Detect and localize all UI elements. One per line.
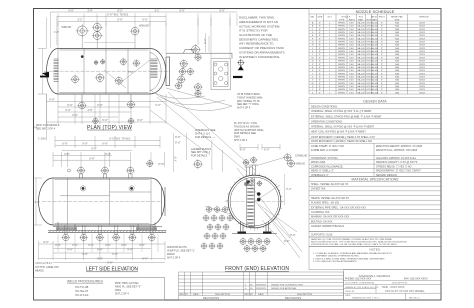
svg-text:TYP: TYP xyxy=(128,71,133,74)
cluster bolt K12 xyxy=(212,233,217,238)
svg-text:RFWN: RFWN xyxy=(338,38,345,40)
long diagonal leaders to front view xyxy=(150,92,255,172)
svg-text:X’-X”: X’-X” xyxy=(175,136,181,139)
svg-text:4’-X”: 4’-X” xyxy=(35,201,40,204)
svg-text:XXXX: XXXX xyxy=(419,57,425,59)
svg-text:MANWAY: SA-XXX: MANWAY: SA-XXX GR X/XX-XXX xyxy=(311,216,349,219)
svg-text:CORROSION ALLOWANCE:: CORROSION ALLOWANCE: xyxy=(311,165,344,168)
nozzle F4 xyxy=(288,160,295,167)
svg-text:X’-X”: X’-X” xyxy=(67,104,73,107)
cluster bolt K9 xyxy=(215,224,220,229)
svg-text:150#: 150# xyxy=(349,64,355,66)
svg-text:N/A: N/A xyxy=(395,88,399,91)
svg-text:MATERIAL SPECIFICATIONS: MATERIAL SPECIFICATIONS xyxy=(352,178,400,182)
note: head spec xyxy=(35,262,59,273)
svg-text:GASKET: WARMKI: GASKET: WARMKIT BUNA-N xyxy=(311,225,344,228)
elevation top dims xyxy=(53,150,165,167)
svg-text:X": X" xyxy=(319,64,321,66)
svg-text:RFWN: RFWN xyxy=(338,70,345,72)
svg-text:X’-X”: X’-X” xyxy=(82,143,88,146)
svg-text:N/A: N/A xyxy=(395,66,399,69)
svg-text:X’-X”: X’-X” xyxy=(137,119,143,122)
cluster bolt K6 xyxy=(219,215,224,220)
svg-text:SA-106: SA-106 xyxy=(371,79,379,82)
svg-text:MATL: MATL xyxy=(372,18,378,21)
svg-text:JD: JD xyxy=(250,284,253,286)
svg-text:CHKD BY: CHKD BY xyxy=(345,291,355,293)
svg-text:=4'0 O.xx"S.F.=: =4'0 O.xx"S.F.= xyxy=(35,262,53,265)
svg-text:X": X" xyxy=(381,48,383,50)
svg-text:X": X" xyxy=(319,76,321,78)
supports row xyxy=(309,232,441,238)
svg-text:SA-105: SA-105 xyxy=(357,79,365,82)
svg-text:NECK: NECK xyxy=(371,16,378,18)
svg-text:XXXX: XXXX xyxy=(419,45,425,47)
svg-text:X": X" xyxy=(319,29,321,31)
right head flange xyxy=(162,187,166,216)
svg-text:FAX: 912-XXX-XXXX: FAX: 912-XXX-XXXX xyxy=(404,278,428,281)
svg-text:XXXX: XXXX xyxy=(419,67,425,69)
svg-text:RFWN: RFWN xyxy=(338,61,345,63)
cluster bolt K8 xyxy=(207,224,212,229)
svg-text:INTERNAL: SHELL XX PS: INTERNAL: SHELL XX PSIG @ XXX °F & (-)°F… xyxy=(311,110,372,113)
svg-text:SA-106: SA-106 xyxy=(371,31,379,34)
nozzle R6 xyxy=(178,76,185,83)
cluster bolt K3 xyxy=(222,207,227,212)
svg-text:XXX CU.FT. XX XXX XXX VESS: XXX CU.FT. XX XXX XXX VESSEL, xyxy=(385,290,425,293)
elevation lower dims xyxy=(39,234,166,263)
svg-text:SHT 4 OF 4: SHT 4 OF 4 xyxy=(237,107,251,110)
svg-text:XXXX: XXXX xyxy=(419,70,425,72)
svg-text:SA-105: SA-105 xyxy=(357,25,365,28)
svg-text:JACKET N/A: JACKET N/A xyxy=(311,188,326,191)
svg-text:X’-X”: X’-X” xyxy=(142,19,148,22)
svg-text:SA-106: SA-106 xyxy=(371,60,379,63)
davit symbol right xyxy=(237,59,244,66)
top-left dim extension lines xyxy=(50,12,57,48)
svg-text:150#: 150# xyxy=(349,92,355,94)
nozzle B4 below xyxy=(128,118,133,123)
svg-text:X’-X”: X’-X” xyxy=(290,234,296,237)
svg-text:X": X" xyxy=(319,70,321,72)
svg-text:XX-GT-10: XX-GT-10 xyxy=(75,293,89,297)
front bottom nozzle FC3 xyxy=(260,246,266,252)
svg-text:ACTUAL WORKING SYSTEM.: ACTUAL WORKING SYSTEM. xyxy=(239,24,280,28)
svg-text:SA-106: SA-106 xyxy=(371,41,379,44)
svg-text:X": X" xyxy=(381,86,383,88)
elevation bottom nozzle E2 xyxy=(81,234,87,240)
svg-text:X’-X”: X’-X” xyxy=(105,244,111,247)
chute / platform extension right xyxy=(166,50,232,59)
svg-text:X’-X”: X’-X” xyxy=(286,188,292,191)
svg-text:RFWN: RFWN xyxy=(338,92,345,94)
svg-text:X’-X”: X’-X” xyxy=(179,9,185,12)
svg-text:N/A: N/A xyxy=(395,60,399,63)
dark blob top-left inside xyxy=(246,180,249,183)
svg-text:N/A: N/A xyxy=(395,28,399,31)
nozzle N2b plan top xyxy=(93,32,101,40)
svg-text:150#: 150# xyxy=(349,61,355,63)
svg-text:SA-105: SA-105 xyxy=(357,75,365,78)
svg-text:3. UTE CHECK AT LIFTING ATTAC: 3. UTE CHECK AT LIFTING ATTACHMENTS xyxy=(313,260,357,263)
svg-text:RFWN: RFWN xyxy=(338,22,345,24)
svg-text:2’-6”: 2’-6” xyxy=(87,109,92,112)
svg-text:2’-2”: 2’-2” xyxy=(77,19,82,22)
svg-text:N/A: N/A xyxy=(395,50,399,53)
nozzle R7 xyxy=(176,83,182,89)
svg-text:X": X" xyxy=(381,89,383,91)
svg-text:X": X" xyxy=(381,26,383,28)
svg-text:STRESS RELVD: ☐ YES ☐ NO: STRESS RELVD: ☐ YES ☐ NO xyxy=(376,164,412,168)
svg-text:XXXX: XXXX xyxy=(419,86,425,88)
svg-text:X": X" xyxy=(381,92,383,94)
svg-text:X’-X”: X’-X” xyxy=(65,109,71,112)
svg-text:150#: 150# xyxy=(349,83,355,85)
svg-text:PHONE: 912-XXX-XXX: PHONE: 912-XXX-XXX xyxy=(345,278,371,281)
svg-text:WIND LOAD:: WIND LOAD: xyxy=(311,161,326,164)
svg-text:SA-106: SA-106 xyxy=(371,66,379,69)
ladder rungs xyxy=(247,185,253,228)
svg-text:SA-105: SA-105 xyxy=(357,91,365,94)
revisions table xyxy=(179,272,344,300)
cluster bolt K16 xyxy=(217,243,222,248)
plan left vertical dim xyxy=(38,49,47,95)
svg-text:SA-106: SA-106 xyxy=(371,69,379,72)
svg-text:X’-X”: X’-X” xyxy=(121,244,127,247)
material specifications table xyxy=(309,177,441,232)
svg-text:X’-X”: X’-X” xyxy=(62,143,68,146)
note: support ring xyxy=(234,122,264,142)
nozzle R3 xyxy=(180,60,187,67)
front bottom nozzle FB3 xyxy=(256,239,262,245)
svg-text:N/A: N/A xyxy=(395,31,399,34)
svg-text:1’-10⅛”: 1’-10⅛” xyxy=(38,138,47,141)
cluster bolt K11 xyxy=(204,233,209,238)
svg-text:RFWN: RFWN xyxy=(338,35,345,37)
leader to labeled nozzles xyxy=(257,158,284,166)
svg-text:SA-105: SA-105 xyxy=(357,53,365,56)
svg-text:SA-105: SA-105 xyxy=(357,66,365,69)
plan bottom dims xyxy=(47,94,167,124)
svg-text:REV: REV xyxy=(245,294,250,296)
svg-text:RFWN: RFWN xyxy=(338,64,345,66)
front bottom nozzle FC2 xyxy=(252,246,258,252)
svg-text:SA-105: SA-105 xyxy=(357,88,365,91)
nozzle B1 below xyxy=(79,102,86,109)
svg-text:3’-1”: 3’-1” xyxy=(154,9,159,12)
svg-text:X": X" xyxy=(319,51,321,53)
svg-text:N/A: N/A xyxy=(395,56,399,59)
svg-text:XX/XX/XX: XX/XX/XX xyxy=(256,288,267,290)
svg-text:SA-105: SA-105 xyxy=(357,44,365,47)
svg-text:XXXX: XXXX xyxy=(419,51,425,53)
svg-text:SUPPORTS: SU36: SUPPORTS: SU36 xyxy=(311,234,333,237)
svg-text:RFWN: RFWN xyxy=(338,89,345,91)
elevation bottom nozzle E5 xyxy=(129,234,135,240)
cluster bolt K4 xyxy=(203,215,208,220)
svg-text:RFWN: RFWN xyxy=(338,76,345,78)
cluster bolt K5 xyxy=(211,215,216,220)
svg-text:2’-4”: 2’-4” xyxy=(87,9,92,12)
svg-text:N/A: N/A xyxy=(395,82,399,85)
svg-text:M: M xyxy=(312,57,314,59)
svg-text:X": X" xyxy=(319,32,321,34)
front leaders xyxy=(205,168,302,258)
svg-text:X": X" xyxy=(319,45,321,47)
svg-text:X": X" xyxy=(319,42,321,44)
title block xyxy=(344,270,442,301)
svg-text:EXTERNAL PIPE SPEC.: SA-XXX: EXTERNAL PIPE SPEC.: SA-XXX GR X/XX-XXX xyxy=(311,206,366,209)
svg-text:150#: 150# xyxy=(349,48,355,50)
svg-text:X’-X”: X’-X” xyxy=(97,104,103,107)
elevation bottom nozzle E4 xyxy=(113,234,119,240)
svg-text:RADIOGRAPHY: ☑ YES ☐ NO ☐SPOT: RADIOGRAPHY: ☑ YES ☐ NO ☐SPOT xyxy=(376,169,421,173)
svg-text:SA-105: SA-105 xyxy=(357,21,365,24)
svg-text:J: J xyxy=(312,48,313,50)
nozzle C1 xyxy=(72,76,79,83)
front elevation outer circle xyxy=(228,175,281,228)
svg-text:CLADDING: N/A: CLADDING: N/A xyxy=(311,211,330,214)
svg-text:150#: 150# xyxy=(349,35,355,37)
nozzle B2 below xyxy=(128,101,135,108)
plan (top) view vessel shell xyxy=(47,49,166,95)
svg-text:X’-X”: X’-X” xyxy=(204,38,207,44)
svg-text:& NBBI AND U-1 FORM: & NBBI AND U-1 FORM xyxy=(311,149,338,152)
svg-text:REV NO. 0: REV NO. 0 xyxy=(409,298,421,300)
cluster bolt K14 xyxy=(201,243,206,248)
elevation left dim xyxy=(34,178,43,225)
svg-text:RFWN: RFWN xyxy=(338,80,345,82)
svg-text:N/A: N/A xyxy=(395,79,399,82)
svg-text:X’-X”: X’-X” xyxy=(49,99,55,102)
svg-text:WELD PROCEDURES: WELD PROCEDURES xyxy=(67,280,103,284)
svg-text:JOINT EFFICIENCY (JACKET):: JOINT EFFICIENCY (JACKET): HEAD N/A SHEL… xyxy=(311,140,372,143)
vertical dim strings left of chute xyxy=(175,136,181,145)
svg-text:SA-105: SA-105 xyxy=(357,60,365,63)
svg-text:ANY RESEMBLANCE TO: ANY RESEMBLANCE TO xyxy=(239,42,274,46)
svg-text:RFWN: RFWN xyxy=(338,86,345,88)
svg-text:X": X" xyxy=(381,38,383,40)
svg-text:N/A: N/A xyxy=(395,91,399,94)
nozzle N2a plan top xyxy=(93,23,101,31)
nozzle C5 xyxy=(134,60,140,66)
svg-text:150#: 150# xyxy=(349,67,355,69)
elevation bottom nozzle E1 xyxy=(63,234,69,240)
svg-text:W/BLND: W/BLND xyxy=(139,25,149,28)
note: skid xyxy=(36,124,60,131)
svg-text:XXXX: XXXX xyxy=(419,26,425,28)
plan view seams xyxy=(44,49,170,95)
plan ws-to-ws dim xyxy=(84,42,135,44)
svg-text:SA-106: SA-106 xyxy=(371,75,379,78)
svg-text:X’-X”: X’-X” xyxy=(175,142,181,145)
svg-text:N/A: N/A xyxy=(395,21,399,24)
weld procedures box xyxy=(34,278,165,301)
svg-text:X": X" xyxy=(319,26,321,28)
front bottom nozzle FC1 xyxy=(244,246,250,252)
svg-text:N/A: N/A xyxy=(395,25,399,28)
svg-text:X’-X”: X’-X” xyxy=(102,119,108,122)
svg-text:DESIGN CONDITIONS:: DESIGN CONDITIONS: xyxy=(311,106,338,109)
saddles xyxy=(58,222,155,231)
anchor slots note xyxy=(167,246,195,260)
svg-text:150#: 150# xyxy=(349,89,355,91)
svg-text:X’-X”: X’-X” xyxy=(112,253,118,256)
svg-text:SA-105: SA-105 xyxy=(357,85,365,88)
svg-text:NOZZLE: NOZZLE xyxy=(342,16,351,18)
left head internal hatch xyxy=(54,59,59,81)
manway blind flange detail xyxy=(211,59,231,90)
svg-text:XXXX: XXXX xyxy=(419,89,425,91)
nozzle R4 xyxy=(180,69,186,75)
svg-text:FOR DETAILS: FOR DETAILS xyxy=(191,155,208,158)
cluster bolt K2 xyxy=(214,207,219,212)
svg-text:RATG: RATG xyxy=(349,18,355,21)
svg-text:150#: 150# xyxy=(349,86,355,88)
svg-text:X": X" xyxy=(381,73,383,75)
svg-text:QTY: QTY xyxy=(327,16,332,18)
svg-text:MATL: MATL xyxy=(358,18,364,21)
svg-text:X’-X”: X’-X” xyxy=(284,240,290,243)
svg-text:150#: 150# xyxy=(349,32,355,34)
front small circles xyxy=(250,179,255,184)
svg-text:XXXX: XXXX xyxy=(419,92,425,94)
svg-text:X’-X”: X’-X” xyxy=(264,148,270,151)
svg-text:RFWN: RFWN xyxy=(338,26,345,28)
svg-text:XXXX: XXXX xyxy=(419,42,425,44)
svg-text:NOTES:: NOTES: xyxy=(369,248,380,252)
svg-text:DRAWING NO SHT 1 OF 4: DRAWING NO SHT 1 OF 4 xyxy=(352,297,379,300)
skid base xyxy=(48,227,166,233)
front flange bolt ticks xyxy=(226,173,282,229)
elevation bottom nozzle E3 xyxy=(97,234,103,240)
svg-text:X’-X”: X’-X” xyxy=(105,153,111,156)
svg-text:RFWN: RFWN xyxy=(338,51,345,53)
svg-text:CODE STAMP: ☑ YES ☐ NO: CODE STAMP: ☑ YES ☐ NO xyxy=(311,144,344,148)
svg-text:X’-X”: X’-X” xyxy=(107,261,113,264)
svg-text:SA-106: SA-106 xyxy=(371,37,379,40)
svg-text:PROJ.: PROJ. xyxy=(379,16,386,18)
svg-text:N/A: N/A xyxy=(395,47,399,50)
svg-text:X’-X”: X’-X” xyxy=(68,9,74,12)
svg-text:150#: 150# xyxy=(349,51,355,53)
svg-text:HEADS: VESSEL SA-XXX GR: HEADS: VESSEL SA-XXX GR XX xyxy=(311,197,349,200)
svg-text:N/A: N/A xyxy=(395,34,399,37)
svg-text:X": X" xyxy=(319,86,321,88)
svg-text:RFWN: RFWN xyxy=(338,48,345,50)
typ flag right xyxy=(147,161,153,167)
svg-text:X": X" xyxy=(319,83,321,85)
svg-text:X’-X”: X’-X” xyxy=(55,244,61,247)
svg-text:6’-2”: 6’-2” xyxy=(117,9,122,12)
notes block xyxy=(309,247,441,270)
svg-text:X": X" xyxy=(381,67,383,69)
svg-text:RFWN: RFWN xyxy=(338,67,345,69)
svg-text:150#: 150# xyxy=(349,45,355,47)
svg-text:RFWN: RFWN xyxy=(338,83,345,85)
nozzle C4 xyxy=(120,59,126,65)
svg-text:X": X" xyxy=(319,89,321,91)
svg-text:150#: 150# xyxy=(349,29,355,31)
svg-text:150#: 150# xyxy=(349,38,355,40)
svg-text:X": X" xyxy=(381,22,383,24)
svg-text:NOZZLE SCHEDULE: NOZZLE SCHEDULE xyxy=(356,9,395,14)
svg-text:X’-X”: X’-X” xyxy=(219,9,225,12)
svg-text:SHT 3 OF 4: SHT 3 OF 4 xyxy=(167,257,181,260)
svg-text:2. KNOCK & MELT-DOWN SHELL SP: 2. KNOCK & MELT-DOWN SHELL SPRINKLE NATU… xyxy=(313,257,385,260)
nozzle C6 xyxy=(101,60,105,64)
nozzle R1 xyxy=(192,46,200,54)
svg-text:X": X" xyxy=(319,92,321,94)
svg-text:BOLTING: SA-XXX: BOLTING: SA-XXX xyxy=(311,220,333,223)
svg-text:SHT 2 OF 4: SHT 2 OF 4 xyxy=(234,139,248,142)
svg-text:SA-105: SA-105 xyxy=(357,31,365,34)
svg-text:SA-106: SA-106 xyxy=(371,88,379,91)
cluster bolt K10 xyxy=(223,224,228,229)
svg-text:X": X" xyxy=(381,29,383,31)
svg-text:SA-106: SA-106 xyxy=(371,44,379,47)
svg-text:DATE: DATE xyxy=(193,293,199,296)
nozzle C2 xyxy=(96,74,104,82)
svg-text:SA-106: SA-106 xyxy=(371,25,379,28)
elevation top stubs xyxy=(79,174,132,179)
cluster bolt K15 xyxy=(209,243,214,248)
svg-text:X/X"THK. ASME XXX: X/X"THK. ASME XXX xyxy=(35,266,59,269)
svg-text:XXXX: XXXX xyxy=(419,83,425,85)
svg-text:XXXX: XXXX xyxy=(419,29,425,31)
svg-text:XXXX: XXXX xyxy=(419,61,425,63)
svg-text:SA-105: SA-105 xyxy=(357,47,365,50)
svg-text:X’-X”: X’-X” xyxy=(88,244,94,247)
svg-text:X": X" xyxy=(381,35,383,37)
svg-text:X’-X”: X’-X” xyxy=(97,248,103,251)
elevation bolts xyxy=(82,187,85,190)
nozzle R8 xyxy=(195,84,202,91)
svg-text:XX/XX/XX: XX/XX/XX xyxy=(256,284,267,286)
svg-text:SYSTEMS OR ARRANGEMENTS: SYSTEMS OR ARRANGEMENTS xyxy=(239,50,285,54)
nozzle R2 xyxy=(195,54,201,60)
svg-text:X’-X”: X’-X” xyxy=(67,248,73,251)
svg-text:SA-105: SA-105 xyxy=(357,50,365,53)
right vertical dim string xyxy=(206,33,209,52)
front top dims xyxy=(240,144,280,150)
svg-text:SA-106: SA-106 xyxy=(371,34,379,37)
note: pipe thru lifting ring xyxy=(115,282,141,296)
match-line arrow left xyxy=(42,72,49,77)
svg-text:DISCLAIMER: THIS TANK: DISCLAIMER: THIS TANK xyxy=(239,16,274,20)
svg-text:SIZE: SIZE xyxy=(395,19,400,21)
svg-text:150#: 150# xyxy=(349,42,355,44)
svg-text:X’-X”: X’-X” xyxy=(72,244,78,247)
svg-text:X": X" xyxy=(381,45,383,47)
front legs xyxy=(232,221,277,234)
svg-text:REVISIONS: REVISIONS xyxy=(285,296,301,300)
svg-text:SA-106: SA-106 xyxy=(371,91,379,94)
svg-text:JD: JD xyxy=(250,288,253,290)
svg-text:X": X" xyxy=(319,38,321,40)
svg-text:ISSUED FOR CONSTRUCTION: ISSUED FOR CONSTRUCTION xyxy=(271,284,303,286)
svg-text:X’-X”: X’-X” xyxy=(127,248,133,251)
svg-text:FLG: FLG xyxy=(359,16,364,18)
svg-text:N/A: N/A xyxy=(395,63,399,66)
svg-text:REINF. PAD: REINF. PAD xyxy=(391,15,403,18)
svg-text:TYPE: TYPE xyxy=(339,19,345,21)
nozzle C3 xyxy=(116,77,123,84)
svg-text:XXXX: XXXX xyxy=(419,80,425,82)
svg-text:X": X" xyxy=(319,22,321,24)
svg-text:150#: 150# xyxy=(349,80,355,82)
svg-text:150#: 150# xyxy=(349,54,355,56)
